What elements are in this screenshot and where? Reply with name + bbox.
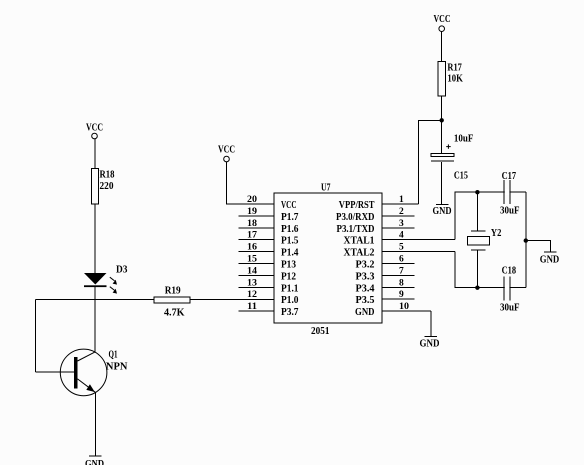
U7 pin 16 (P1.4) — [239, 243, 300, 259]
wire pin 10 to ground — [430, 311, 432, 336]
wire Y2 bottom to junction — [476, 250, 478, 288]
ground (U7 pin 10) — [420, 337, 440, 350]
U7 pin 12 (P1.0) — [247, 290, 299, 306]
power VCC (U7 pin 20) — [218, 145, 235, 162]
ground (crystal net) — [540, 252, 560, 265]
transistor Q1 — [60, 349, 128, 396]
wire junction to Y2 top — [476, 192, 478, 231]
svg-text:P3.5: P3.5 — [356, 295, 375, 306]
capacitor C15 (10uF polarized) — [431, 134, 473, 182]
ground (emitter) — [85, 456, 104, 465]
wire R17 to C15 — [441, 96, 443, 154]
LED D3 — [84, 265, 128, 294]
svg-text:6: 6 — [399, 255, 404, 265]
svg-text:Y2: Y2 — [491, 228, 502, 239]
U7 pin 5 (XTAL2) — [344, 243, 456, 259]
svg-text:5: 5 — [399, 243, 404, 253]
U7 pin 9 (P3.5) — [356, 290, 415, 306]
svg-text:D3: D3 — [116, 265, 128, 276]
svg-text:P1.0: P1.0 — [281, 295, 299, 306]
svg-text:15: 15 — [247, 255, 257, 265]
svg-text:P12: P12 — [281, 271, 296, 282]
U7 pin 20 (VCC) — [247, 195, 297, 211]
U7 pin 2 (P3.0/RXD) — [336, 207, 415, 223]
svg-text:10uF: 10uF — [454, 134, 474, 145]
svg-text:P3.2: P3.2 — [356, 260, 375, 271]
svg-text:U7: U7 — [321, 183, 331, 194]
svg-text:10: 10 — [399, 302, 409, 312]
svg-text:19: 19 — [247, 207, 257, 217]
svg-text:C15: C15 — [454, 171, 468, 182]
IC U7 (2051) body — [274, 183, 382, 338]
svg-text:P1.1: P1.1 — [281, 283, 299, 294]
svg-text:VCC: VCC — [86, 123, 103, 134]
svg-text:GND: GND — [355, 307, 375, 318]
svg-text:P1.4: P1.4 — [281, 248, 299, 259]
svg-text:P3.0/RXD: P3.0/RXD — [336, 212, 375, 223]
svg-text:1: 1 — [399, 195, 404, 205]
svg-text:GND: GND — [420, 339, 440, 350]
junction node XTAL1 — [475, 190, 479, 194]
svg-text:XTAL1: XTAL1 — [344, 236, 375, 247]
svg-text:220: 220 — [100, 181, 114, 192]
svg-text:3: 3 — [399, 219, 404, 229]
U7 pin 10 (GND) — [355, 302, 431, 318]
svg-text:VCC: VCC — [281, 200, 297, 211]
svg-text:P3.4: P3.4 — [356, 283, 376, 294]
svg-text:P1.5: P1.5 — [281, 236, 299, 247]
svg-text:10K: 10K — [447, 74, 463, 85]
power VCC (left branch) — [86, 123, 103, 139]
U7 pin 15 (P13) — [239, 255, 297, 271]
svg-text:P3.7: P3.7 — [281, 307, 299, 318]
svg-text:P3.1/TXD: P3.1/TXD — [337, 224, 375, 235]
svg-text:18: 18 — [247, 219, 257, 229]
svg-text:Q1: Q1 — [109, 350, 118, 361]
U7 pin 19 (P1.7) — [239, 207, 299, 223]
svg-text:9: 9 — [399, 290, 404, 300]
wire C15 to ground — [441, 162, 443, 204]
U7 pin 13 (P1.1) — [239, 278, 299, 294]
svg-text:8: 8 — [399, 278, 404, 288]
svg-text:13: 13 — [247, 278, 257, 288]
svg-text:XTAL2: XTAL2 — [344, 248, 375, 259]
U7 pin 17 (P1.5) — [239, 231, 299, 247]
svg-text:P1.6: P1.6 — [281, 224, 299, 235]
svg-text:14: 14 — [247, 266, 257, 276]
svg-text:7: 7 — [399, 266, 404, 276]
svg-text:20: 20 — [247, 195, 257, 205]
svg-text:P3.3: P3.3 — [356, 271, 375, 282]
U7 pin 11 (P3.7) — [239, 302, 299, 318]
wire VCC to pin 20 — [227, 162, 275, 205]
crystal Y2 — [467, 228, 501, 250]
U7 pin 18 (P1.6) — [239, 219, 299, 235]
svg-text:R18: R18 — [100, 170, 115, 181]
wire VCC to R18 — [94, 139, 96, 169]
U7 pin 3 (P3.1/TXD) — [337, 219, 415, 235]
svg-text:4: 4 — [399, 231, 404, 241]
wire Q1 emitter to ground — [94, 392, 96, 456]
resistor R17 — [438, 62, 463, 97]
wire D3 to Q1 collector — [94, 287, 96, 352]
wire right leg C17-C18 — [525, 192, 527, 288]
svg-text:R19: R19 — [165, 286, 181, 297]
wire to right ground — [526, 241, 551, 252]
junction node VPP/RST — [440, 118, 444, 122]
svg-text:VCC: VCC — [434, 14, 451, 25]
svg-text:4.7K: 4.7K — [164, 308, 185, 319]
resistor R18 — [92, 169, 115, 205]
capacitor C17 (30uF) — [500, 171, 520, 217]
svg-text:P13: P13 — [281, 260, 296, 271]
svg-text:NPN: NPN — [106, 362, 128, 373]
U7 pin 8 (P3.4) — [356, 278, 415, 294]
svg-text:C17: C17 — [502, 171, 516, 182]
U7 pin 1 (VPP/RST) — [339, 195, 419, 211]
svg-text:GND: GND — [433, 206, 452, 217]
svg-text:C18: C18 — [502, 266, 516, 277]
wire VCC to R17 — [441, 32, 443, 62]
capacitor C18 (30uF) — [500, 266, 520, 314]
svg-text:GND: GND — [85, 459, 104, 465]
junction node XTAL2 — [475, 286, 479, 290]
junction node right leg — [524, 238, 528, 242]
svg-text:R17: R17 — [447, 63, 462, 74]
svg-text:2051: 2051 — [311, 326, 330, 337]
wire to base bar — [36, 371, 75, 373]
svg-text:VCC: VCC — [218, 145, 235, 156]
resistor R19 — [154, 286, 190, 319]
svg-text:30uF: 30uF — [500, 303, 520, 314]
svg-text:30uF: 30uF — [500, 206, 520, 217]
U7 pin 7 (P3.3) — [356, 266, 415, 282]
svg-text:P1.7: P1.7 — [281, 212, 299, 223]
ground (C15) — [433, 204, 452, 217]
svg-text:11: 11 — [247, 302, 257, 312]
svg-text:VPP/RST: VPP/RST — [339, 200, 375, 211]
wire XTAL2 down — [455, 252, 526, 288]
svg-text:2: 2 — [399, 207, 404, 217]
svg-text:12: 12 — [247, 290, 257, 300]
wire node P1.0 row (base resistor net) — [36, 299, 155, 301]
svg-text:16: 16 — [247, 243, 257, 253]
U7 pin 4 (XTAL1) — [344, 231, 456, 247]
power VCC (RST pullup) — [434, 14, 451, 32]
wire R18 to D3 — [94, 204, 96, 273]
U7 pin 6 (P3.2) — [356, 255, 415, 271]
wire XTAL1 up — [455, 192, 526, 240]
svg-text:17: 17 — [247, 231, 257, 241]
wire down to base — [35, 300, 37, 372]
wire pin 1 up to RST node — [419, 120, 442, 204]
U7 pin 14 (P12) — [239, 266, 297, 282]
wire R19 to U7 pin 12 — [190, 299, 274, 301]
svg-text:GND: GND — [540, 255, 560, 266]
